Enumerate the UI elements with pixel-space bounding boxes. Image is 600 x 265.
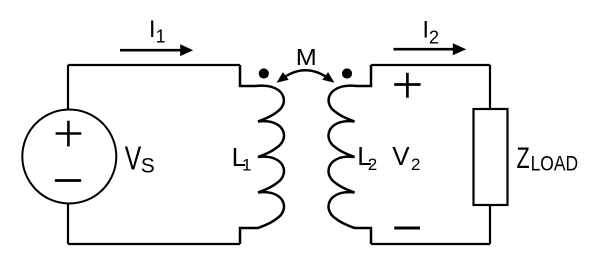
polarity dot (L2): [342, 68, 352, 78]
svg-text:LOAD: LOAD: [531, 153, 579, 176]
wire: secondary loop right vertical (above load): [489, 65, 491, 109]
label V2: [392, 141, 420, 174]
label VS: [125, 140, 155, 178]
mutual coupling arrow M: [277, 70, 335, 83]
svg-text:2: 2: [429, 27, 439, 47]
wire: secondary loop top horizontal: [371, 64, 490, 66]
svg-text:1: 1: [242, 155, 251, 174]
svg-text:V: V: [392, 141, 410, 171]
wire: secondary loop bottom horizontal: [371, 243, 490, 245]
label L1: [232, 142, 252, 174]
load impedance ZLOAD (rectangle): [474, 109, 508, 205]
V2 minus sign: [394, 227, 420, 230]
svg-text:Z: Z: [517, 142, 530, 175]
polarity dot (L1): [259, 68, 269, 78]
voltage source VS minus sign: [55, 179, 81, 182]
current arrow I2: [394, 43, 467, 55]
svg-text:2: 2: [411, 155, 420, 174]
wire: primary loop left vertical (top of source): [67, 65, 69, 110]
voltage source VS (circle): [22, 110, 116, 204]
svg-text:V: V: [125, 140, 142, 177]
wire: secondary loop right vertical (below load): [489, 205, 491, 244]
svg-text:M: M: [296, 44, 317, 70]
wire: primary loop top horizontal: [68, 64, 240, 66]
label L2: [357, 141, 377, 174]
svg-text:I: I: [149, 16, 156, 43]
inductor L2: [328, 65, 371, 244]
inductor L1: [240, 65, 284, 244]
label I1: [149, 16, 166, 47]
wire: primary loop bottom horizontal: [68, 243, 240, 245]
label I2: [422, 17, 439, 48]
svg-text:1: 1: [156, 27, 166, 47]
current arrow I1: [120, 44, 193, 56]
svg-text:2: 2: [368, 155, 377, 174]
svg-text:S: S: [141, 155, 155, 178]
V2 plus sign: [394, 73, 420, 98]
voltage source VS plus sign: [56, 121, 82, 147]
wire: primary loop left vertical (below source): [67, 203, 69, 244]
label ZLOAD: [517, 142, 579, 176]
